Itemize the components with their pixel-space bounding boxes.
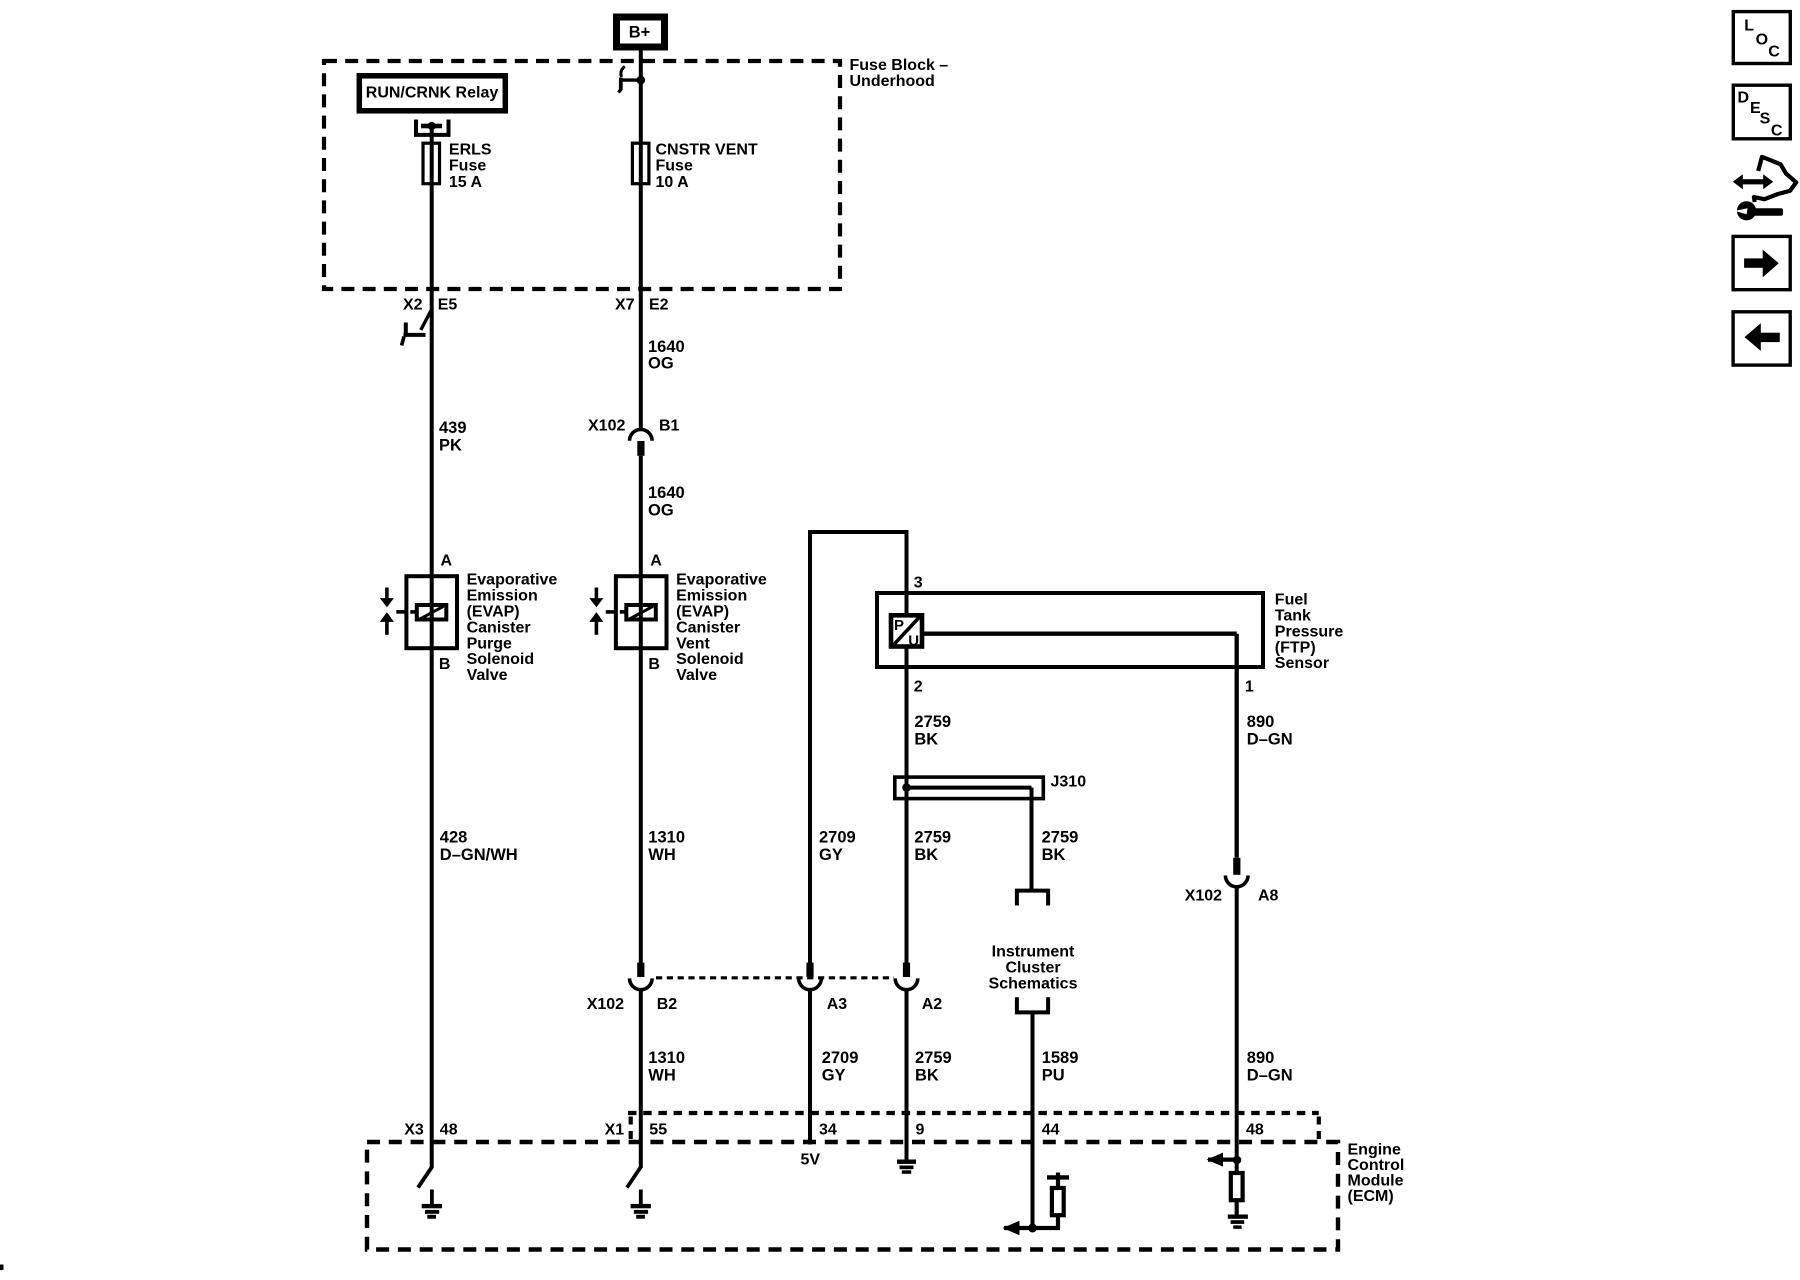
svg-text:Canister: Canister xyxy=(467,619,531,636)
svg-text:Pressure: Pressure xyxy=(1275,623,1344,640)
svg-text:890: 890 xyxy=(1247,1049,1275,1067)
svg-text:Fuse: Fuse xyxy=(449,158,486,175)
svg-text:X3: X3 xyxy=(404,1122,424,1139)
svg-text:3: 3 xyxy=(914,575,923,592)
splice branch wire to instrument cluster xyxy=(907,788,1032,892)
junction dot on B+ feed xyxy=(637,76,646,85)
svg-text:X2: X2 xyxy=(403,296,423,313)
svg-text:(FTP): (FTP) xyxy=(1275,639,1316,656)
svg-text:Emission: Emission xyxy=(467,588,538,605)
svg-text:34: 34 xyxy=(819,1122,837,1139)
svg-text:Valve: Valve xyxy=(467,667,508,684)
P/U pressure transducer symbol xyxy=(891,615,922,649)
svg-text:Engine: Engine xyxy=(1348,1142,1401,1159)
svg-text:Solenoid: Solenoid xyxy=(467,651,535,668)
wire label 890 D-GN lower xyxy=(1247,1049,1293,1085)
svg-text:D–GN: D–GN xyxy=(1247,731,1293,749)
in-line connector X102 A3 xyxy=(799,963,848,1014)
svg-text:48: 48 xyxy=(440,1122,458,1139)
svg-text:(ECM): (ECM) xyxy=(1348,1188,1394,1205)
relay output terminal bracket xyxy=(416,120,449,135)
svg-text:Canister: Canister xyxy=(676,619,740,636)
svg-text:A: A xyxy=(650,552,662,569)
connector clip symbol at X2 E5 xyxy=(402,311,431,346)
fuse block label xyxy=(850,57,949,90)
resistor at pin 44 xyxy=(1047,1173,1069,1216)
fuse ERLS 15A xyxy=(423,141,492,191)
EVAP purge valve description xyxy=(467,572,558,684)
svg-text:439: 439 xyxy=(439,419,467,437)
svg-text:Vent: Vent xyxy=(676,635,710,652)
svg-text:Instrument: Instrument xyxy=(992,944,1075,961)
ground symbol at pin 48 xyxy=(1228,1215,1248,1229)
ground symbol at pin 9 xyxy=(897,1160,916,1174)
wire into FTP sensor pin 3 and through sensor to pin 2 xyxy=(905,530,909,963)
svg-text:1640: 1640 xyxy=(648,338,685,356)
svg-text:D–GN: D–GN xyxy=(1247,1067,1293,1085)
svg-text:CNSTR VENT: CNSTR VENT xyxy=(656,141,758,158)
svg-text:1589: 1589 xyxy=(1042,1049,1079,1067)
FTP sensor internal output wire to pin 1 xyxy=(922,634,1237,858)
svg-text:2759: 2759 xyxy=(915,1049,952,1067)
svg-text:GY: GY xyxy=(819,846,843,864)
svg-text:B1: B1 xyxy=(659,418,680,435)
svg-text:L: L xyxy=(1744,18,1754,35)
svg-text:Fuse: Fuse xyxy=(656,158,693,175)
svg-text:15 A: 15 A xyxy=(449,174,483,191)
sidebar wiring repair icon xyxy=(1733,157,1796,221)
svg-text:(EVAP): (EVAP) xyxy=(676,604,729,621)
svg-text:Evaporative: Evaporative xyxy=(676,572,767,589)
ground symbol at X1 55 xyxy=(631,1204,651,1219)
svg-text:E2: E2 xyxy=(649,296,669,313)
in-line connector X102 A8 (male pin into female arc) xyxy=(1185,858,1279,905)
svg-text:B: B xyxy=(648,656,660,673)
svg-text:B2: B2 xyxy=(657,996,678,1013)
svg-text:Sensor: Sensor xyxy=(1275,655,1329,672)
wire 2759 BK below A2 xyxy=(905,990,909,1160)
svg-text:X7: X7 xyxy=(615,296,635,313)
svg-text:1640: 1640 xyxy=(648,484,685,502)
svg-text:A8: A8 xyxy=(1258,888,1279,905)
svg-text:2: 2 xyxy=(914,679,923,696)
svg-text:A2: A2 xyxy=(922,996,943,1013)
svg-text:BK: BK xyxy=(914,846,938,864)
svg-text:J310: J310 xyxy=(1051,774,1087,791)
svg-text:Purge: Purge xyxy=(467,635,512,652)
svg-text:2759: 2759 xyxy=(914,828,951,846)
svg-text:X1: X1 xyxy=(605,1122,625,1139)
svg-text:5V: 5V xyxy=(801,1152,821,1169)
svg-text:Solenoid: Solenoid xyxy=(676,651,744,668)
svg-text:WH: WH xyxy=(648,846,676,864)
wire 1589 PU from cluster to ECM pin 44 xyxy=(1031,1012,1035,1228)
svg-text:Evaporative: Evaporative xyxy=(467,572,558,589)
wire label 2709 GY lower xyxy=(822,1049,859,1085)
wire label 2709 GY mid xyxy=(819,828,856,864)
svg-text:X102: X102 xyxy=(1185,888,1222,905)
wire label 1310 WH mid xyxy=(648,828,685,864)
svg-text:890: 890 xyxy=(1247,713,1275,731)
wire label 1310 WH lower xyxy=(648,1049,685,1085)
off-page reference bracket from instrument cluster (bottom) xyxy=(1017,997,1048,1012)
svg-text:Schematics: Schematics xyxy=(989,976,1078,993)
svg-text:S: S xyxy=(1760,111,1771,128)
connector row X102 dashed link xyxy=(656,976,894,979)
svg-text:(EVAP): (EVAP) xyxy=(467,604,520,621)
sidebar DESC button xyxy=(1733,85,1790,139)
svg-text:Fuse Block –: Fuse Block – xyxy=(850,57,949,74)
svg-text:1310: 1310 xyxy=(648,828,685,846)
EVAP canister vent solenoid valve xyxy=(589,552,666,673)
wire 2709 GY below A3 xyxy=(808,990,812,1145)
svg-text:48: 48 xyxy=(1246,1122,1264,1139)
svg-text:RUN/CRNK Relay: RUN/CRNK Relay xyxy=(366,85,499,102)
off-page reference bracket to instrument cluster (top) xyxy=(1017,891,1048,906)
connector X7 E2 labels xyxy=(615,296,669,313)
in-line connector X102 A2 xyxy=(895,963,942,1014)
svg-text:B: B xyxy=(439,656,451,673)
wire label 2759 BK mid xyxy=(914,828,951,864)
internal switch to ground at X1 55 xyxy=(627,1167,641,1205)
wire 2709 GY vertical (FTP pin3 feed down to ECM pin 34) xyxy=(808,530,812,963)
svg-text:A: A xyxy=(441,552,453,569)
splice pack J310 xyxy=(895,774,1086,799)
battery feed clip symbol at fuse block entry xyxy=(618,67,641,93)
svg-text:P: P xyxy=(894,617,904,634)
svg-text:E5: E5 xyxy=(438,296,458,313)
svg-text:ERLS: ERLS xyxy=(449,141,492,158)
svg-text:55: 55 xyxy=(649,1122,667,1139)
in-line connector X102 B1 (female arc over male pin) xyxy=(588,418,680,456)
svg-text:GY: GY xyxy=(822,1067,846,1085)
power node B+ xyxy=(617,17,665,47)
svg-text:44: 44 xyxy=(1042,1122,1060,1139)
instrument cluster schematics reference text xyxy=(989,944,1078,993)
sidebar next arrow button xyxy=(1733,236,1790,289)
svg-text:2759: 2759 xyxy=(914,713,951,731)
svg-text:BK: BK xyxy=(914,731,938,749)
fuse CNSTR VENT 10A xyxy=(632,141,758,191)
svg-text:Emission: Emission xyxy=(676,588,747,605)
wire label 1640 OG upper xyxy=(648,338,685,372)
svg-text:D–GN/WH: D–GN/WH xyxy=(440,846,518,864)
wire from relay to ERLS fuse xyxy=(430,126,434,145)
svg-text:Control: Control xyxy=(1348,1157,1405,1174)
svg-text:BK: BK xyxy=(1042,846,1066,864)
resistor at pin 48 xyxy=(1231,1173,1243,1215)
wire 5V reference top run xyxy=(808,530,909,534)
svg-text:Cluster: Cluster xyxy=(1005,960,1060,977)
wire 1310 WH below B2 xyxy=(639,990,643,1168)
internal switch to ground at X3 48 xyxy=(418,1167,432,1205)
pin 48 internal pull-down circuit xyxy=(1207,1153,1242,1167)
svg-text:PU: PU xyxy=(1042,1067,1065,1085)
svg-text:2759: 2759 xyxy=(1042,828,1079,846)
FTP sensor description xyxy=(1275,592,1344,673)
pin 44 internal pull-up circuit xyxy=(1003,1215,1061,1235)
wire 1640 OG from B1 to vent valve and on to ECM X1-55 xyxy=(639,456,643,963)
ECM description xyxy=(1348,1142,1405,1206)
svg-text:10 A: 10 A xyxy=(656,174,690,191)
ECM pin X3 48 labels xyxy=(404,1122,457,1139)
engine control module dashed box xyxy=(367,1142,1338,1250)
EVAP canister purge solenoid valve xyxy=(380,552,457,673)
svg-text:D: D xyxy=(1738,90,1750,107)
svg-text:O: O xyxy=(1756,31,1768,48)
svg-text:OG: OG xyxy=(648,354,674,372)
svg-text:Underhood: Underhood xyxy=(850,73,935,90)
svg-text:WH: WH xyxy=(648,1067,676,1085)
svg-text:Fuel: Fuel xyxy=(1275,592,1308,609)
svg-text:PK: PK xyxy=(439,437,462,455)
svg-text:Tank: Tank xyxy=(1275,608,1311,625)
wire B+ feed down to B1 connector xyxy=(639,50,643,430)
ground symbol at X3 48 xyxy=(422,1204,442,1219)
wire label 2759 BK upper xyxy=(914,713,951,749)
fuse block underhood dashed box xyxy=(324,61,840,289)
relay RUN/CRNK xyxy=(359,76,505,111)
svg-text:428: 428 xyxy=(440,828,468,846)
wire label 1640 OG lower xyxy=(648,484,685,519)
svg-text:Module: Module xyxy=(1348,1173,1404,1190)
wire label 428 D-GN/WH xyxy=(440,828,518,864)
svg-text:C: C xyxy=(1771,122,1783,139)
svg-text:1: 1 xyxy=(1245,679,1254,696)
wire 890 D-GN from A8 to ECM pin 48 xyxy=(1235,887,1239,1171)
svg-text:1310: 1310 xyxy=(648,1049,685,1067)
wire label 2759 BK lower xyxy=(915,1049,952,1085)
svg-text:2709: 2709 xyxy=(819,828,856,846)
in-line connector X102 B2 xyxy=(587,963,678,1014)
svg-text:BK: BK xyxy=(915,1067,939,1085)
fuel tank pressure sensor box xyxy=(877,593,1263,667)
wire label 439 PK xyxy=(439,419,467,455)
page edge mark xyxy=(0,1265,4,1271)
wire label 2759 BK splice branch xyxy=(1042,828,1079,864)
ECM pin X1 55 labels xyxy=(605,1122,668,1139)
svg-text:A3: A3 xyxy=(827,996,848,1013)
wire 439 PK vertical (ERLS fuse to purge valve to ECM X3-48) xyxy=(430,145,434,1168)
junction dot in J310 xyxy=(902,783,911,792)
svg-text:2709: 2709 xyxy=(822,1049,859,1067)
svg-text:Valve: Valve xyxy=(676,667,717,684)
EVAP vent valve description xyxy=(676,572,767,684)
svg-text:X102: X102 xyxy=(587,996,624,1013)
sidebar back arrow button xyxy=(1733,312,1790,365)
wire label 890 D-GN upper xyxy=(1247,713,1293,749)
svg-text:B+: B+ xyxy=(629,24,651,42)
svg-text:C: C xyxy=(1768,43,1780,60)
connector X2 E5 labels xyxy=(403,296,457,313)
svg-text:X102: X102 xyxy=(588,418,625,435)
svg-text:OG: OG xyxy=(648,502,674,520)
svg-text:9: 9 xyxy=(916,1122,925,1139)
wire label 1589 PU xyxy=(1042,1049,1079,1085)
ECM connector X1 dotted boundary xyxy=(628,1113,1319,1139)
svg-text:U: U xyxy=(908,633,919,650)
sidebar LOC button xyxy=(1733,12,1790,64)
